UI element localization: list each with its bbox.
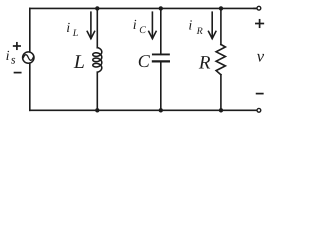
wire source branch lower	[29, 64, 31, 110]
wire capacitor branch lower	[160, 62, 162, 111]
capacitor C top plate	[153, 53, 169, 55]
wire resistor branch upper	[220, 8, 222, 44]
svg-text:i: i	[188, 19, 192, 34]
svg-text:i: i	[66, 21, 70, 36]
node junction inductor bottom	[95, 108, 99, 112]
wire right terminal upper lead	[254, 7, 256, 9]
node junction capacitor top	[159, 6, 163, 10]
resistor R zigzag	[216, 45, 225, 75]
svg-text:v: v	[257, 47, 265, 66]
terminal top right	[257, 6, 261, 10]
svg-text:L: L	[72, 28, 79, 39]
svg-text:i: i	[133, 18, 137, 33]
current source i_s circle	[23, 52, 34, 63]
node junction capacitor bottom	[159, 108, 163, 112]
node junction resistor top	[219, 6, 223, 10]
wire inductor branch upper	[96, 8, 98, 47]
current source sine wave	[23, 55, 33, 61]
capacitor C bottom plate	[153, 60, 169, 62]
minus sign source polarity	[15, 72, 21, 74]
node junction resistor bottom	[219, 108, 223, 112]
svg-text:R: R	[196, 26, 203, 37]
arrow i_C	[151, 12, 153, 38]
svg-text:C: C	[139, 25, 146, 36]
plus sign output	[256, 23, 263, 25]
svg-text:L: L	[73, 52, 85, 73]
arrow i_R	[211, 12, 213, 38]
wire bottom rail	[30, 109, 256, 111]
wire resistor branch lower	[220, 75, 222, 111]
svg-text:i: i	[6, 49, 10, 64]
plus sign source polarity	[14, 45, 20, 47]
svg-text:C: C	[138, 51, 151, 71]
wire capacitor branch upper	[160, 8, 162, 54]
minus sign output	[257, 93, 263, 95]
svg-text:R: R	[198, 52, 211, 73]
wire source branch upper	[29, 8, 31, 51]
inductor L coil	[93, 48, 102, 73]
wire top rail	[30, 7, 256, 9]
terminal bottom right	[257, 108, 261, 112]
wire inductor branch lower	[96, 72, 98, 110]
svg-text:s: s	[11, 53, 16, 67]
node junction inductor top	[95, 6, 99, 10]
arrow i_L	[90, 12, 92, 38]
